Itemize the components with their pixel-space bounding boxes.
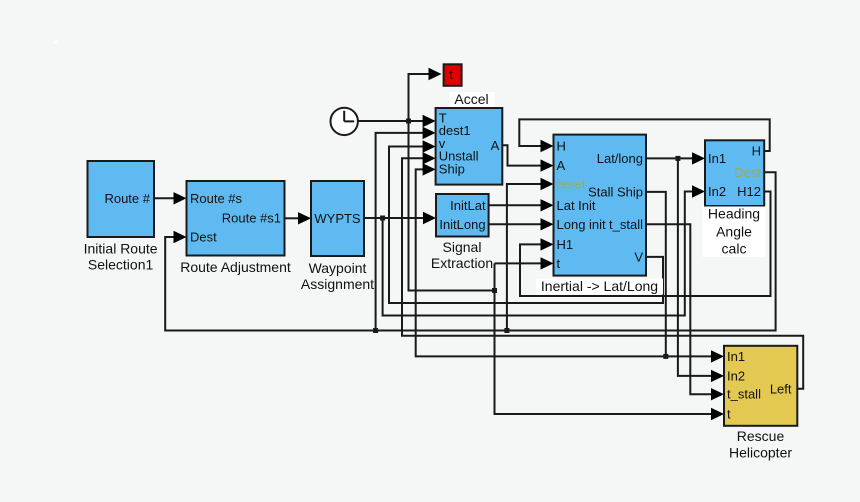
svg-text:H: H	[557, 139, 566, 154]
svg-text:calc: calc	[722, 240, 747, 256]
svg-text:Waypoint: Waypoint	[309, 260, 367, 276]
svg-text:Dest: Dest	[190, 230, 217, 245]
svg-text:Initial Route: Initial Route	[84, 240, 158, 256]
svg-text:t: t	[727, 407, 731, 422]
svg-text:Assignment: Assignment	[301, 276, 374, 292]
svg-text:Selection1: Selection1	[88, 256, 154, 272]
svg-text:t_stall: t_stall	[609, 217, 643, 232]
svg-text:Long init: Long init	[557, 217, 607, 232]
svg-text:In2: In2	[708, 184, 726, 199]
svg-text:Lat Init: Lat Init	[557, 198, 596, 213]
svg-text:Ship: Ship	[439, 161, 465, 176]
svg-text:Route Adjustment: Route Adjustment	[180, 259, 291, 275]
svg-text:Heading: Heading	[708, 205, 760, 221]
svg-text:Extraction: Extraction	[431, 255, 493, 271]
svg-text:Accel: Accel	[454, 91, 488, 107]
svg-text:V: V	[634, 249, 643, 264]
svg-text:Route #: Route #	[104, 191, 150, 206]
svg-text:WYPTS: WYPTS	[314, 211, 361, 226]
svg-text:Rescue: Rescue	[737, 428, 785, 444]
svg-text:Stall Ship: Stall Ship	[588, 184, 643, 199]
svg-text:H1: H1	[557, 237, 574, 252]
svg-text:A: A	[557, 158, 566, 173]
svg-text:Left: Left	[770, 381, 792, 396]
svg-text:Route #s: Route #s	[190, 191, 243, 206]
svg-text:In2: In2	[727, 368, 745, 383]
svg-text:Dest: Dest	[734, 165, 761, 180]
svg-text:H: H	[752, 144, 761, 159]
svg-text:In1: In1	[708, 151, 726, 166]
svg-text:InitLong: InitLong	[439, 217, 485, 232]
svg-text:In1: In1	[727, 349, 745, 364]
svg-text:A: A	[491, 138, 500, 153]
svg-text:H12: H12	[737, 184, 761, 199]
svg-text:InitLat: InitLat	[450, 198, 486, 213]
svg-text:t: t	[557, 256, 561, 271]
svg-text:Angle: Angle	[716, 223, 752, 239]
svg-text:Signal: Signal	[443, 239, 482, 255]
svg-text:reset: reset	[557, 177, 586, 192]
svg-text:Helicopter: Helicopter	[729, 445, 792, 461]
svg-text:Route #s1: Route #s1	[222, 211, 281, 226]
svg-text:Lat/long: Lat/long	[597, 151, 643, 166]
svg-text:t: t	[449, 67, 453, 82]
svg-text:t_stall: t_stall	[727, 387, 761, 402]
svg-text:Inertial -> Lat/Long: Inertial -> Lat/Long	[541, 278, 658, 294]
